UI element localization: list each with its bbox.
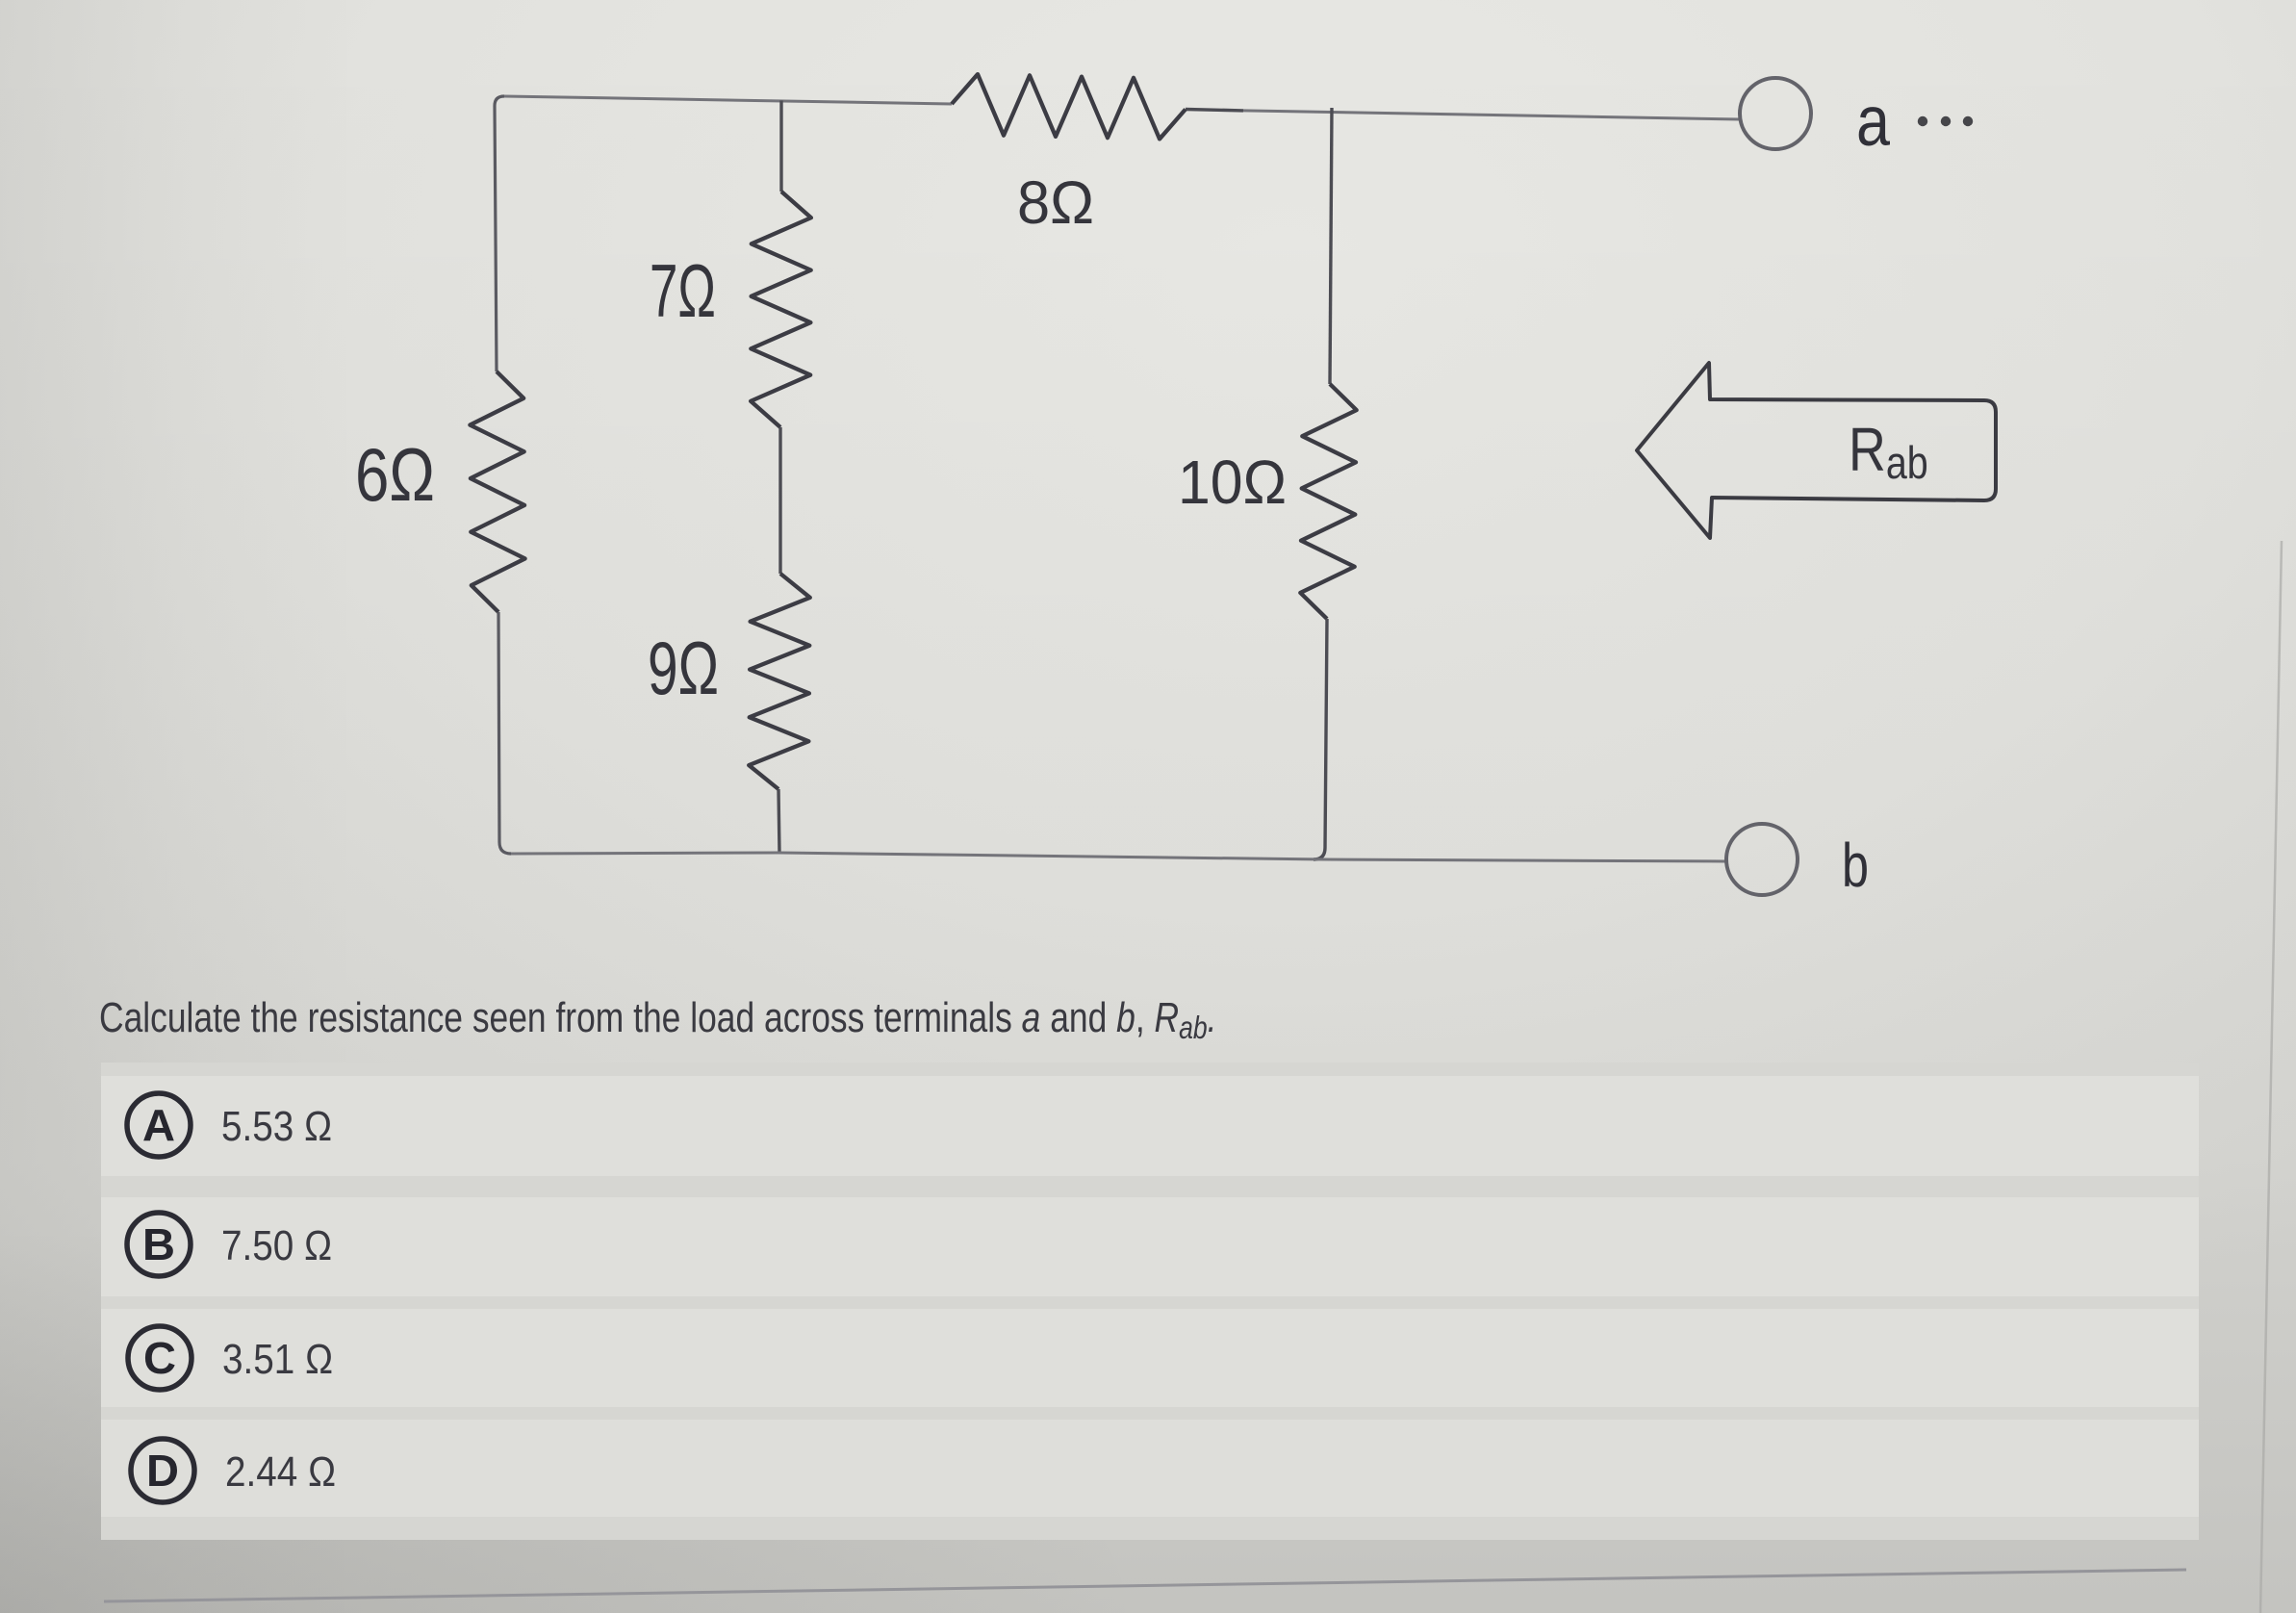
svg-text:6Ω: 6Ω [355, 432, 435, 517]
screen bottom separator line [104, 1570, 2186, 1601]
svg-text:D: D [146, 1446, 179, 1496]
resistor 9ohm [749, 574, 810, 789]
label Rab [1849, 415, 1928, 489]
svg-text:Calculate the resistance seen: Calculate the resistance seen from the l… [99, 994, 1217, 1045]
wire middle branch middle lead [778, 427, 781, 574]
option band D [101, 1420, 2199, 1517]
svg-text:C: C [143, 1333, 176, 1383]
option band A [101, 1076, 2199, 1176]
resistor 6ohm [470, 371, 524, 612]
resistor 7ohm [751, 192, 811, 427]
wire left branch lower lead [498, 612, 511, 854]
svg-text:a: a [1856, 83, 1890, 161]
wire 8ohm right lead [1186, 110, 1243, 111]
wire top right segment [1243, 111, 1740, 119]
svg-text:8Ω: 8Ω [1017, 169, 1094, 237]
wire middle branch lower lead [778, 789, 779, 853]
svg-text:A: A [142, 1100, 175, 1150]
terminal b [1726, 824, 1798, 895]
wire bottom (node b rail) [511, 853, 1726, 861]
svg-text:5.53 Ω: 5.53 Ω [221, 1103, 332, 1150]
svg-text:B: B [142, 1219, 175, 1269]
resistor 8ohm [952, 74, 1186, 139]
svg-text:10Ω: 10Ω [1178, 448, 1287, 517]
more dots [1918, 116, 1927, 126]
resistor 10ohm [1300, 384, 1356, 619]
wire left branch upper lead [495, 96, 504, 371]
wire top (node from top-left corner to terminal a) [504, 96, 952, 104]
question text [99, 994, 1217, 1045]
svg-text:3.51 Ω: 3.51 Ω [222, 1336, 333, 1383]
svg-text:2.44 Ω: 2.44 Ω [225, 1448, 336, 1496]
terminal a [1740, 78, 1811, 149]
svg-text:b: b [1842, 831, 1869, 900]
option A circle [127, 1093, 191, 1157]
svg-text:9Ω: 9Ω [648, 626, 719, 710]
wire right branch lower lead [1314, 619, 1327, 859]
option D circle [131, 1439, 194, 1502]
svg-text:7.50 Ω: 7.50 Ω [221, 1222, 332, 1269]
option band C [101, 1309, 2199, 1407]
screen right edge line [2260, 541, 2282, 1613]
answer panel backdrop [101, 1063, 2199, 1540]
wire right branch upper lead [1330, 108, 1332, 384]
svg-text:7Ω: 7Ω [650, 248, 716, 333]
wire middle branch upper lead [779, 101, 782, 192]
option B circle [127, 1213, 191, 1276]
option band B [101, 1197, 2199, 1296]
Rab load arrow [1637, 363, 1996, 538]
option C circle [128, 1326, 191, 1390]
